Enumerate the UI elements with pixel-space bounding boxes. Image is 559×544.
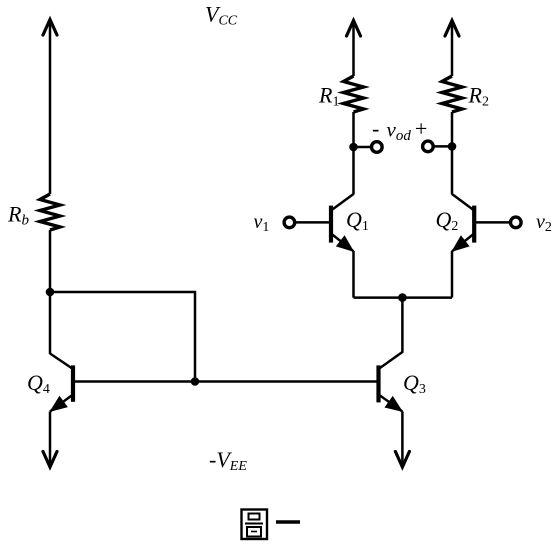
transistor Q3 [379, 352, 403, 412]
wire Q1 emitter down [352, 251, 355, 298]
wire v1 to Q1 base [294, 221, 331, 224]
power VCC arrow (Rb branch) [43, 20, 57, 195]
wire R2 to Q2 collector [451, 112, 454, 195]
power VCC arrow (R1 branch) [347, 21, 361, 77]
output terminal + (vod) [423, 141, 434, 152]
wire node to - terminal [354, 146, 373, 149]
resistor Rb [40, 194, 60, 230]
wire Q2 emitter down [451, 251, 454, 298]
caption 圖一 (Figure 1) [242, 510, 301, 540]
svg-text:+: + [414, 116, 429, 141]
node: base rail junction [191, 377, 200, 386]
svg-text:-: - [372, 116, 379, 141]
wire emitter tie bar [354, 296, 453, 299]
power -VEE arrow (Q4 emitter) [43, 412, 57, 468]
node: tail current junction [398, 293, 407, 302]
wire v2 to Q2 base [474, 221, 511, 224]
input terminal v1 [284, 217, 295, 228]
wire + terminal to node [433, 145, 453, 148]
power -VEE arrow (Q3 emitter) [395, 412, 409, 468]
transistor Q1 [331, 194, 354, 251]
resistor R1 [344, 76, 364, 112]
wire: base rail from Q4 to Q3 [73, 380, 379, 383]
node: R1 / output - [349, 143, 358, 152]
node: Rb/Q4 collector-base tie [46, 288, 55, 297]
power VCC arrow (R2 branch) [445, 21, 459, 77]
input terminal v2 [511, 217, 522, 228]
wire: tie node across to base rail [50, 292, 195, 382]
resistor R2 [442, 76, 462, 112]
output terminal - (vod) [372, 142, 383, 153]
node: R2 / output + [448, 142, 457, 151]
transistor Q4 [50, 354, 73, 412]
transistor Q2 [452, 194, 474, 251]
wire Rb bottom to Q4 collector [49, 230, 52, 354]
wire R1 to Q1 collector [352, 112, 355, 195]
wire tail to Q3 collector [401, 298, 404, 353]
